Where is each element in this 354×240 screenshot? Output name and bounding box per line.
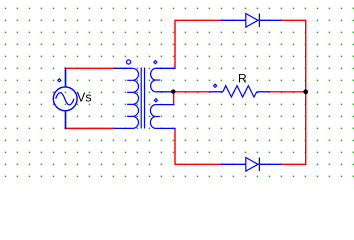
transformer T1 primary bottom lead <box>114 127 133 129</box>
source Vs circle <box>53 87 77 111</box>
transformer T1 primary phasing dot <box>127 60 131 64</box>
transformer T1 secondary bottom lead <box>156 127 176 129</box>
node: center tap junction dot <box>171 89 175 93</box>
transformer T1 primary cusp ticks <box>127 80 132 116</box>
resistor R right lead <box>257 91 270 93</box>
diode D2 cathode bar <box>258 158 260 172</box>
node: right junction dot <box>303 89 308 94</box>
source Vs bottom lead <box>65 111 67 130</box>
transformer T1 secondary upper bottom lead (center tap) <box>156 91 172 93</box>
transformer T1 secondary phasing marker (diamond) <box>154 61 157 64</box>
marker diamond near resistor <box>214 84 217 87</box>
marker diamond near source <box>58 79 61 82</box>
transformer T1 core lines <box>141 68 144 129</box>
wire: right column lower (node to bottom rail) <box>305 92 307 165</box>
diode D1 (top) left lead <box>221 19 246 21</box>
diode D1 right lead <box>259 19 281 21</box>
transformer T1 primary top lead <box>114 67 133 69</box>
transformer T1 primary winding arcs <box>132 68 138 128</box>
wire: right column upper (top rail to node) <box>305 20 307 92</box>
transformer T1 secondary lower cusp tick <box>156 116 160 118</box>
transformer T1 secondary upper winding arcs <box>151 68 156 92</box>
resistor R left lead <box>209 91 223 93</box>
resistor R zigzag <box>223 86 257 97</box>
diode D1 triangle <box>246 14 258 28</box>
diode D1 cathode bar <box>258 14 260 28</box>
wire: resistor right to right node <box>269 91 305 93</box>
transformer T1 secondary lower winding arcs <box>150 105 155 129</box>
wire: node to resistor left <box>173 91 209 93</box>
diode D2 triangle <box>246 158 258 172</box>
wire: secondary top to top rail (vertical) <box>174 20 176 68</box>
wire: bottom rail right segment <box>281 163 306 165</box>
wire: bottom-left horizontal (transformer primary to source) <box>65 127 114 129</box>
diode D2 right lead <box>259 163 281 165</box>
source Vs sine wave <box>56 93 74 105</box>
wire: top-left horizontal (source to transformer primary) <box>65 67 114 69</box>
wire: top rail right segment <box>281 19 306 21</box>
wire: bottom rail left segment <box>174 163 221 165</box>
diode D2 (bottom) left lead <box>221 163 246 165</box>
erase grid dot under top rail corner <box>172 19 175 22</box>
wire: center tap node down to secondary lower winding <box>173 92 175 105</box>
wire: top rail left segment <box>174 19 221 21</box>
svg-text:R: R <box>238 72 247 86</box>
transformer T1 secondary lower top lead <box>156 104 175 106</box>
transformer T1 secondary upper cusp tick <box>156 79 160 81</box>
erase grid dot under bottom rail corner <box>172 163 175 166</box>
source Vs top lead <box>65 68 67 87</box>
svg-text:Vs: Vs <box>77 90 92 104</box>
transformer T1 secondary top lead <box>156 67 176 69</box>
marker diamond near center tap <box>154 99 157 102</box>
wire: secondary bottom to bottom rail (vertical) <box>174 128 176 164</box>
